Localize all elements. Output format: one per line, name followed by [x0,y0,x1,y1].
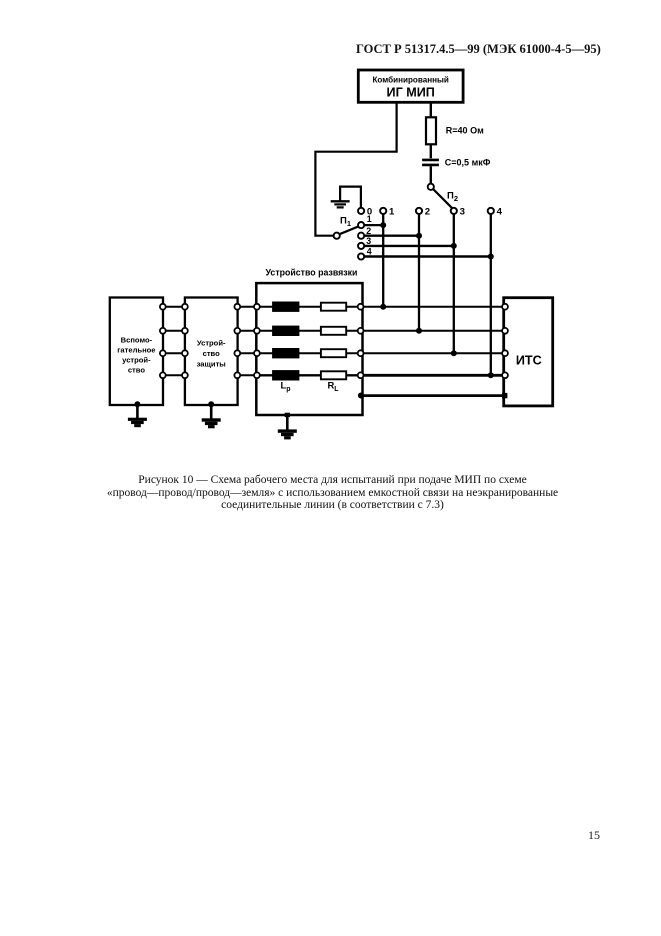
svg-text:защиты: защиты [197,360,226,369]
ground reference wire: decoupling box to ITE [358,393,508,399]
wire resistor to capacitor [430,144,432,158]
line row 2: decoupling to ITE [358,328,508,334]
line row 4 inside decoupling: inductor Lp and resistor RL [260,370,361,380]
protection device box "Устройство защиты" [185,298,238,406]
line row 4: protection to decoupling [234,372,259,378]
line row 2: protection to decoupling [234,328,259,334]
svg-text:4: 4 [497,207,503,218]
svg-text:ИГ МИП: ИГ МИП [387,86,435,100]
wire capacitor to switch П2 [430,166,432,183]
svg-text:1: 1 [389,207,395,218]
svg-text:Устройство развязки: Устройство развязки [266,268,358,278]
terminal 4 [488,207,503,218]
line row 3: protection to decoupling [234,350,259,356]
svg-text:1: 1 [367,214,372,224]
svg-text:4: 4 [367,246,372,256]
ground (top, at terminal 0) [331,187,361,208]
П1 contact 1 [358,214,372,228]
svg-text:Вспомо-: Вспомо- [121,336,153,345]
wire contact4 to node on terminal-4 line [364,254,494,260]
generator box U1 "Комбинированный ИГ МИП" [358,70,463,102]
wire from generator right output down to resistor [430,102,432,117]
terminal 1 [380,207,395,218]
wire contact1 to node on terminal-1 line [364,222,386,228]
ITE box "ИТС" [504,298,553,406]
wire contact2 to node on terminal-2 line [364,233,422,239]
line row 1 inside decoupling: inductor and resistor [260,302,361,312]
vertical wire terminal 2 down to line row 2 [416,214,422,334]
svg-text:Устрой-: Устрой- [197,339,226,348]
svg-text:Lp: Lp [281,380,291,394]
switch П1 moving contact [334,233,340,239]
П1 contact 4 [358,246,372,259]
svg-text:RL: RL [328,380,340,394]
line row 4: decoupling to ITE [358,372,508,378]
line row 2 inside decoupling: inductor and resistor [260,326,361,336]
wire contact3 to node on terminal-3 line [364,243,457,249]
line row 1: aux to protection [160,304,188,310]
svg-text:гательное: гательное [117,346,155,355]
auxiliary equipment box "Вспомогательное устройство" [110,298,163,406]
resistor R=40 Ом [426,117,484,144]
svg-text:устрой-: устрой- [122,356,151,365]
ground under decoupling box [278,413,297,440]
vertical wire terminal 3 down to line row 3 [451,214,457,356]
vertical wire terminal 1 down to line row 1 [380,214,386,310]
П1 contact 2 [358,226,371,239]
line row 2: aux to protection [160,328,188,334]
terminal 0 [358,207,372,218]
wire from generator left output down, left and down to switch П1 [315,102,396,236]
svg-text:ство: ство [203,349,221,358]
svg-text:П1: П1 [340,215,351,228]
svg-text:ИТС: ИТС [516,354,542,368]
svg-text:2: 2 [366,226,371,236]
terminal 3 [451,207,465,218]
svg-text:2: 2 [425,207,430,218]
line row 1: protection to decoupling [234,304,259,310]
line row 1: decoupling to ITE [358,304,508,310]
line row 4: aux to protection [160,372,188,378]
П1 contact 3 [358,236,371,249]
ground under auxiliary box [128,401,147,427]
switch П1 lever [340,227,359,235]
line row 3: decoupling to ITE [358,350,508,356]
svg-text:ство: ство [128,366,146,375]
terminal 2 [416,207,430,218]
line row 3 inside decoupling: inductor and resistor [260,348,361,358]
svg-text:Комбинированный: Комбинированный [372,76,448,85]
svg-text:R=40 Ом: R=40 Ом [446,126,484,136]
svg-text:C=0,5 мкФ: C=0,5 мкФ [445,157,491,167]
switch П2 pivot contact [428,184,434,190]
decoupling device box "Устройство развязки" [256,268,362,416]
vertical wire terminal 4 down to line row 4 [488,214,494,378]
svg-text:П2: П2 [447,191,458,204]
switch П2 lever [433,189,452,208]
line row 3: aux to protection [160,350,188,356]
ground under protection box [202,401,221,428]
capacitor C=0,5 мкФ [422,157,491,167]
svg-text:3: 3 [460,207,465,218]
